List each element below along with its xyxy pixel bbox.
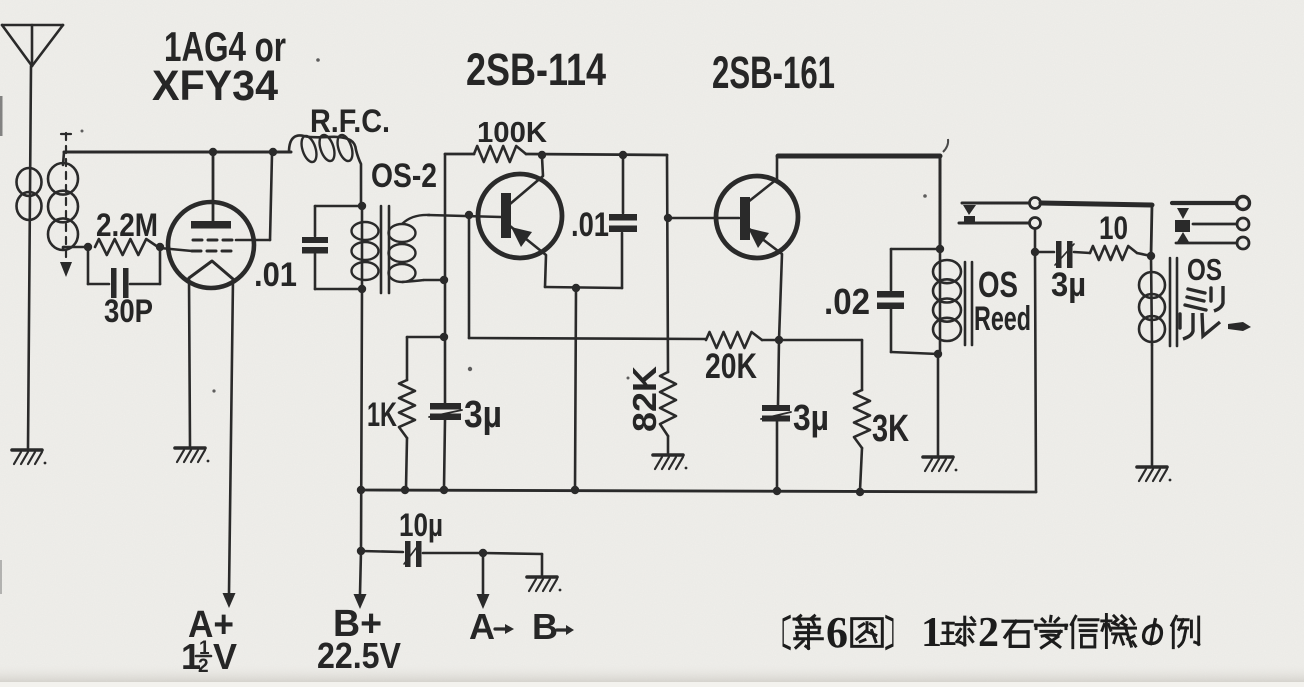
transistor Q2 base bar (740, 197, 750, 240)
svg-text:10µ: 10µ (399, 507, 443, 543)
wire grid1 to rail (236, 154, 272, 240)
relay output core (1170, 258, 1177, 346)
resistor 10 (1074, 210, 1151, 260)
wire base1 to bias rail (469, 215, 706, 339)
(scan edge marks, decorative) (0, 96, 3, 136)
wire tank bottom (63, 246, 90, 249)
wire secondary top to base (428, 215, 501, 217)
transistor Q2 emitter (748, 228, 782, 340)
svg-text:82K: 82K (626, 366, 663, 432)
svg-text:2: 2 (198, 656, 209, 677)
antenna coil L1 (17, 168, 42, 220)
transistor Q2 2SB-161 label (712, 47, 835, 98)
ground antenna (12, 450, 46, 464)
svg-text:3µ: 3µ (464, 394, 502, 436)
antenna (2, 25, 63, 66)
node cap .01 top junction (619, 151, 627, 159)
node emitter2 junction (775, 336, 783, 344)
label B+ 22.5V (317, 603, 401, 676)
svg-text:22.5V: 22.5V (317, 635, 401, 676)
wire 20K to emitter2 (762, 339, 779, 342)
capacitor .02 (824, 249, 940, 354)
svg-text:R.F.C.: R.F.C. (310, 103, 390, 139)
svg-text:3K: 3K (872, 408, 909, 450)
tube plate (191, 154, 231, 229)
relay output coil (1139, 256, 1165, 345)
(corner curl artifact) (943, 139, 948, 152)
transistor Q1 base bar (501, 193, 511, 238)
svg-text:1K: 1K (367, 396, 397, 434)
wire secondary bottom (424, 279, 443, 282)
node 10u junction (357, 547, 365, 555)
svg-text:20K: 20K (705, 347, 757, 386)
svg-text:100K: 100K (477, 117, 547, 149)
capacitor 3u output (1035, 241, 1086, 304)
(decorative specks omitted from labelling) (468, 367, 472, 371)
relay terminal circles (1237, 197, 1250, 250)
svg-text:6: 6 (826, 608, 848, 657)
resistor 2.2M (95, 207, 158, 255)
wire reed lower to 3u (1034, 229, 1037, 252)
tube filament (189, 261, 233, 279)
transistor Q1 2SB-114 label (466, 44, 606, 95)
label B out (532, 606, 574, 647)
tuning slug dashed arrow (60, 133, 72, 277)
wire rail corner to 82K (667, 155, 668, 372)
relay contact arm (heavy) (1172, 203, 1236, 219)
relay OS Reed core (965, 262, 972, 345)
resistor 1K (367, 380, 415, 488)
svg-text:2: 2 (978, 610, 999, 656)
transistor Q1 circle (478, 174, 562, 258)
relay contact fixed block (1175, 220, 1190, 242)
tube V1 envelope (168, 202, 254, 288)
svg-text:Reed: Reed (974, 300, 1031, 338)
node bus 3K (856, 488, 864, 496)
wire A output arrow (477, 553, 490, 609)
label OS Reed (974, 264, 1031, 338)
svg-text:OS: OS (1187, 252, 1222, 287)
label OS miniature relay (1180, 252, 1251, 339)
node base1 junction (465, 211, 473, 219)
ground B output (527, 577, 561, 591)
transformer OS-2 label (371, 157, 437, 195)
ground relay (923, 457, 957, 471)
svg-text:B: B (532, 606, 558, 647)
wire B+ arrow (354, 551, 367, 609)
svg-text:3µ: 3µ (1051, 266, 1086, 304)
node relay coil bottom (934, 350, 942, 358)
wire emitter1 loop (545, 233, 622, 288)
svg-text:.02: .02 (824, 281, 870, 322)
tank coil L2 (48, 152, 78, 250)
svg-text:OS: OS (978, 264, 1018, 305)
wire B+ feed (361, 289, 362, 551)
svg-text:A: A (469, 606, 495, 647)
node A output junction (479, 549, 487, 557)
capacitor 3u (stage1 bypass) (429, 394, 502, 488)
svg-text:10: 10 (1099, 210, 1128, 246)
transformer OS-2 secondary coil (389, 215, 431, 282)
label A+ 1.5V (181, 604, 237, 677)
node 1K branch junction (440, 333, 448, 341)
capacitor 3u (stage2 bypass) (761, 340, 829, 490)
wire top rail stage1 (445, 154, 667, 155)
node bus 1K (401, 486, 409, 494)
svg-text:.01: .01 (571, 206, 609, 244)
svg-text:V: V (213, 636, 237, 677)
svg-text:3µ: 3µ (793, 397, 829, 438)
node secondary-bottom junction (440, 276, 448, 284)
node emitter1 bypass junction (572, 284, 580, 292)
ground output (1137, 467, 1171, 481)
wire reed to output (heavy) (1041, 203, 1152, 256)
resistor 20K (705, 332, 762, 386)
svg-text:1: 1 (921, 610, 942, 656)
tube grid 2 dashes (192, 250, 232, 253)
node tank/2.2M junction (84, 243, 92, 251)
transformer OS-2 core (381, 206, 389, 293)
wire filament right / A+ lead (223, 279, 236, 608)
node base2 junction (664, 214, 672, 222)
ground filament (175, 448, 209, 462)
node relay coil top (936, 245, 944, 253)
wire relay coil to ground (937, 354, 940, 455)
node bus emitter1 (571, 486, 579, 494)
resistor 3K (779, 340, 909, 490)
wire grid2 to 2.2M (160, 248, 192, 251)
wire output coil to ground (1151, 345, 1154, 465)
node 2.2M right (156, 243, 164, 251)
node 3u junction (1031, 248, 1039, 256)
wire top grid rail (64, 151, 291, 154)
node bus emitter2 (773, 487, 781, 495)
node OS-2 primary bottom (358, 285, 366, 293)
relay contact bottom (1176, 242, 1236, 245)
tube V1 1AG4/XFY34 label (152, 23, 286, 110)
capacitor 30P (88, 247, 160, 329)
wire to B ground (483, 553, 542, 575)
transistor Q1 collector (510, 157, 543, 204)
node bus 3u (440, 486, 448, 494)
node collector1 junction (538, 151, 546, 159)
transistor Q1 emitter (510, 226, 546, 287)
reed contact arm top (962, 203, 1029, 215)
svg-text:2SB-161: 2SB-161 (712, 47, 835, 98)
resistor 100K (474, 117, 547, 162)
tube grid 1 dashes (193, 239, 233, 242)
capacitor .01 tank (primary) (254, 206, 362, 294)
wire base2 (668, 217, 739, 220)
relay OS Reed coil (933, 249, 961, 354)
svg-text:XFY34: XFY34 (152, 62, 278, 110)
resistor 82K (626, 366, 676, 453)
label A out (469, 606, 514, 647)
wire collector2 rail (heavy) (778, 156, 940, 249)
wire antenna feed (28, 66, 31, 448)
node output transformer top (1147, 252, 1155, 260)
wire 100K-left vertical (444, 154, 447, 404)
svg-text:30P: 30P (104, 293, 153, 329)
transformer OS-2 primary coil (352, 206, 379, 289)
svg-text:2.2M: 2.2M (96, 207, 158, 243)
reed terminal circles (1030, 198, 1041, 229)
transistor Q2 circle (716, 176, 798, 258)
svg-text:2SB-114: 2SB-114 (466, 44, 606, 95)
svg-text:.01: .01 (254, 256, 297, 294)
ground 82K (653, 455, 687, 469)
wire filament left to ground (189, 278, 190, 446)
caption dai-6-zu 1-kyu 2-seki jushinki no rei (783, 608, 1199, 657)
capacitor .01 coupling (571, 155, 637, 244)
wire emitter1 to B rail (575, 288, 576, 490)
node bus B+ (357, 486, 365, 494)
node grid2-rail junction (269, 148, 277, 156)
wire to 1K (407, 337, 444, 380)
reed contact fixed (959, 216, 1029, 223)
capacitor 10u (361, 507, 483, 567)
relay contact middle (1193, 223, 1236, 226)
node OS-2 primary top (358, 202, 366, 210)
node plate-rail junction (209, 148, 217, 156)
wire B+ bus (361, 252, 1036, 492)
transistor Q2 collector (748, 157, 777, 202)
choke R.F.C. (289, 103, 390, 206)
svg-text:OS-2: OS-2 (371, 157, 437, 195)
